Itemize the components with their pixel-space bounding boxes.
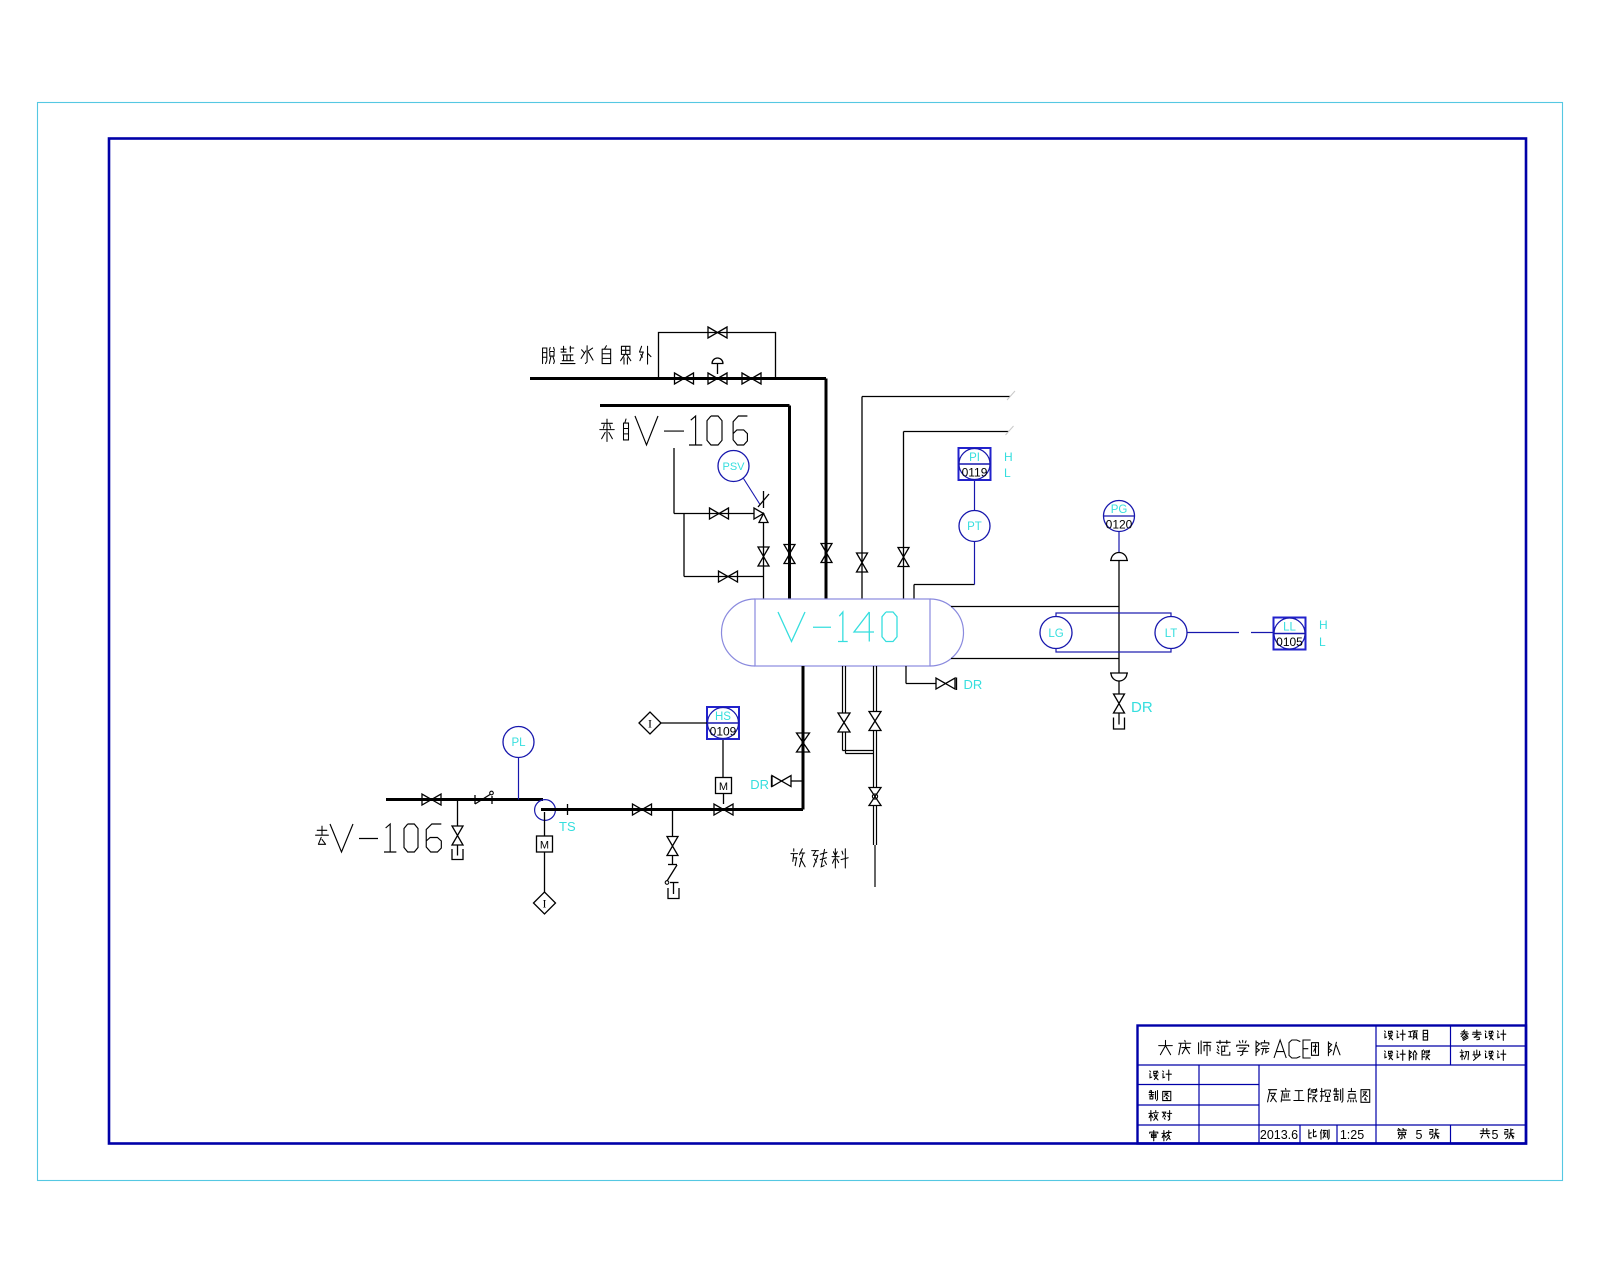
actuator M for HS [716,778,732,805]
title 反应工段控制点图 [1268,1088,1370,1102]
globe valve residue [869,788,881,806]
wire to funnel [1118,713,1120,725]
svg-text:L: L [1004,466,1011,480]
wire product line mid [541,808,803,811]
svg-text:PL: PL [511,737,526,749]
valve bottom outlet [797,733,810,752]
instrument PT [959,511,990,542]
control valve HS [714,804,733,815]
svg-text:PSV: PSV [722,461,745,473]
relief valve PSV body [754,491,769,523]
vessel V-140 shell [722,599,964,666]
svg-text:LL: LL [1283,622,1296,634]
drawing inner border (navy) [109,139,1526,1144]
title block frame [1138,1026,1527,1144]
wire bypass loop [659,333,776,379]
wire PSV outlet [763,523,765,600]
valve bypass gate [708,327,727,338]
valve vent 1 [857,553,868,572]
valve block B [742,373,761,384]
signal PT to PI [974,480,976,511]
svg-text:M: M [719,781,728,793]
title cell 设计项目 [1385,1030,1428,1040]
wire seal to valve [1118,681,1120,695]
signal M to I [544,852,546,892]
wire product line left [386,798,543,801]
title row 制图 [1149,1090,1171,1100]
wire vent line 1 [862,391,1015,599]
label DR right [964,677,983,692]
label TS [559,819,576,834]
signal LT to LL [1187,632,1273,634]
svg-text:PI: PI [969,452,980,464]
valve residue B [869,712,881,731]
valve PSV outlet [758,547,769,566]
wire bridle top [951,606,1119,608]
valve vent 2 [898,548,909,567]
wire residue leg A lower [843,732,874,754]
valve drain tap A [452,826,463,845]
wire vessel bottom outlet [555,666,803,810]
hose fitting B [665,856,678,885]
svg-text:DR: DR [750,777,769,792]
signal I to HS [661,722,707,724]
svg-text:PG: PG [1111,504,1128,516]
valve drain tap B [667,837,678,856]
bridle frame [1056,613,1171,652]
wire drain tap A [457,800,459,827]
svg-text:2013.6: 2013.6 [1260,1128,1298,1142]
actuator M for TS [537,836,553,852]
label V-140 [778,612,897,642]
valve block A [675,373,694,384]
svg-text:H: H [1004,450,1013,464]
funnel drain B [668,883,679,899]
signal PL [518,758,520,800]
text 放残料 [791,849,848,868]
text 去V-106 [316,824,442,852]
wire vessel drain right [906,666,936,684]
signal PT to process [974,542,976,585]
instrument LG [1040,617,1072,649]
svg-text:L: L [1319,635,1326,649]
label H/L for LL [1319,618,1328,649]
valve on feed riser [784,545,795,564]
wire PT process tap [914,585,975,600]
svg-text:I: I [543,897,547,911]
title row 校对 [1149,1110,1172,1120]
instrument PI-0119 [959,448,991,480]
wire feed from V-106 [600,406,790,600]
valve residue A [838,713,850,732]
valve product gate 2 [633,804,652,815]
svg-text:TS: TS [559,819,576,834]
text 脱盐水自界外 [543,346,651,364]
svg-text:HS: HS [715,711,731,723]
svg-text:5: 5 [1416,1128,1423,1142]
funnel standpipe drain [1114,718,1125,730]
PSV leader line [744,479,761,505]
svg-text:DR: DR [1131,699,1153,716]
diaphragm seal upper [1110,553,1128,561]
control valve with diaphragm actuator [708,358,727,384]
title row 设计 [1150,1070,1172,1080]
svg-text:M: M [540,840,549,852]
diaphragm seal lower [1110,673,1128,681]
title text 大庆师范学院ACE团队 [1159,1040,1340,1058]
instrument LL-0105 [1274,618,1306,650]
interlock I diamond A [534,892,556,914]
valve vessel drain right [936,678,957,691]
wire residue leg B [874,666,877,711]
wire drain tap B [672,810,674,837]
wire residue outlet [874,806,877,888]
valve product gate [422,794,441,805]
svg-text:5: 5 [1492,1128,1499,1142]
signal HS to M [722,739,724,778]
title date 2013.6 [1260,1128,1298,1142]
signal PG [1118,532,1120,554]
wire vent line 2 [904,426,1014,599]
valve DR tap [772,776,804,788]
svg-text:DR: DR [964,677,983,692]
wire PSV inlet branch [674,448,754,514]
svg-text:H: H [1319,618,1328,632]
svg-text:0120: 0120 [1106,518,1133,532]
title cell 参考设计 [1461,1030,1506,1040]
wire residue leg B lower [874,731,877,789]
svg-text:0109: 0109 [710,725,737,739]
svg-text:1:25: 1:25 [1340,1128,1364,1142]
signal TS to M [544,812,546,836]
valve standpipe drain [1114,694,1125,713]
text 来自V-106 [600,416,748,445]
title cell 设计阶段 [1385,1050,1430,1060]
title 比例 [1309,1129,1329,1139]
svg-text:I: I [648,717,652,731]
wire residue leg A [843,666,846,713]
svg-text:PT: PT [967,521,982,533]
specialty sample fitting [475,791,493,804]
label DR standpipe [1131,699,1153,716]
valve PSV bypass [719,571,738,582]
instrument PG-0120 [1104,501,1135,532]
instrument LT [1155,617,1187,649]
funnel drain A [452,845,463,860]
wire demin-water main header [530,379,826,600]
title scale 1:25 [1340,1128,1364,1142]
title cell 初步设计 [1460,1050,1506,1060]
svg-text:0119: 0119 [962,466,988,480]
label H/L for PI [1004,450,1013,480]
instrument PSV [718,451,749,482]
title 第5张 [1398,1128,1440,1142]
tick on line [567,804,569,815]
interlock I diamond B [639,712,661,734]
instrument TS element [535,800,556,821]
svg-text:LT: LT [1165,628,1178,640]
wire bridle bottom [951,658,1119,660]
instrument HS-0109 [707,707,739,739]
svg-text:LG: LG [1048,628,1063,640]
wire PG standpipe [1118,561,1120,674]
valve PSV inlet gate [710,508,729,519]
instrument PL [503,727,534,758]
title 共5张 [1480,1128,1514,1142]
title row 审核 [1150,1130,1172,1140]
valve on demin-water riser [821,544,832,563]
wire PSV bypass [684,514,764,577]
svg-text:0105: 0105 [1276,635,1303,649]
label DR tap [750,777,769,792]
